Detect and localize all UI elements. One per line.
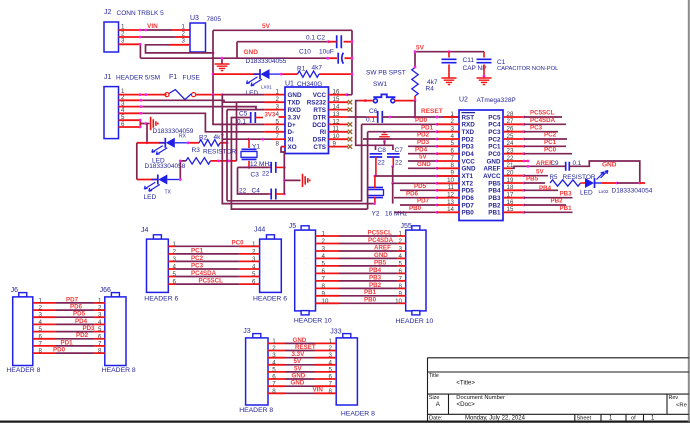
- wire C8 bottom to XT1 node: [375, 157, 377, 176]
- capacitor C6: [378, 111, 383, 123]
- svg-text:1: 1: [322, 231, 326, 238]
- U2 pin23 PC0 row: [503, 153, 524, 155]
- svg-text:PD5: PD5: [73, 311, 86, 318]
- wire switch right to RESET: [394, 100, 414, 102]
- svg-text:1: 1: [329, 338, 333, 345]
- svg-text:PD0: PD0: [415, 117, 428, 124]
- svg-text:PD5: PD5: [462, 188, 475, 195]
- J4.6-J44.6 wire: [168, 283, 176, 285]
- J1.2 wire (jog) to U1 TXD: [119, 99, 143, 101]
- svg-text:8: 8: [98, 348, 102, 355]
- svg-text:3: 3: [276, 104, 280, 111]
- svg-text:D1833304059: D1833304059: [153, 128, 194, 135]
- svg-text:2: 2: [322, 238, 326, 245]
- svg-text:PC3: PC3: [530, 124, 543, 131]
- wire LED to R1: [270, 73, 282, 75]
- U3 pin3 output U-path to 5V rail: [169, 44, 190, 46]
- svg-text:HEADER 8: HEADER 8: [102, 367, 136, 374]
- LED D2 (RX): [159, 142, 166, 144]
- J3.3-J33.3 wire: [268, 357, 285, 359]
- svg-text:4: 4: [173, 264, 177, 271]
- svg-text:Rev: Rev: [669, 395, 679, 401]
- wire C7 bottom to XT2 node: [392, 157, 394, 167]
- wire J2.3 down to GND rail: [119, 43, 141, 45]
- U2 pin6 PD4 row: [408, 153, 437, 155]
- svg-text:PB3: PB3: [488, 195, 501, 202]
- svg-text:AREF: AREF: [374, 244, 391, 251]
- junction dot: [139, 36, 142, 39]
- svg-text:PC1: PC1: [191, 247, 204, 254]
- svg-text:C5: C5: [239, 111, 248, 118]
- svg-text:5V: 5V: [294, 365, 302, 372]
- svg-text:J1: J1: [104, 74, 112, 81]
- svg-text:J2: J2: [104, 9, 112, 16]
- svg-text:7: 7: [399, 275, 403, 282]
- svg-text:PC2: PC2: [488, 136, 501, 143]
- svg-text:Sheet: Sheet: [577, 416, 592, 422]
- connector J6 tab: [19, 293, 27, 297]
- svg-text:C6: C6: [369, 108, 378, 115]
- svg-text:1: 1: [399, 231, 403, 238]
- J6.6-J66.6 wire: [33, 338, 56, 340]
- svg-text:F1: F1: [169, 74, 177, 81]
- J6.4-J66.4 wire: [33, 323, 56, 325]
- svg-text:1: 1: [39, 297, 43, 304]
- U1 right NC pins with X: [329, 101, 349, 103]
- svg-text:PD5: PD5: [414, 183, 427, 190]
- svg-text:XT1: XT1: [462, 173, 474, 180]
- svg-text:1: 1: [98, 297, 102, 304]
- RST overline: [462, 112, 476, 114]
- svg-text:Y2: Y2: [372, 211, 380, 218]
- svg-text:PD7: PD7: [66, 296, 79, 303]
- wire Y2 top: [374, 176, 376, 189]
- svg-text:D1833304054: D1833304054: [612, 188, 653, 195]
- wire C5 left down (V4): [231, 118, 367, 210]
- wire R4 bottom to switch node: [414, 96, 416, 101]
- svg-text:D1833304055: D1833304055: [246, 58, 287, 65]
- svg-text:PB2: PB2: [488, 202, 501, 209]
- svg-text:2: 2: [399, 238, 403, 245]
- U2 pin26 PC3 row: [503, 131, 524, 133]
- J6.5-J66.5 wire: [33, 331, 56, 333]
- svg-text:PB0: PB0: [364, 297, 377, 304]
- svg-text:HEADER 8: HEADER 8: [6, 367, 40, 374]
- U1 XI wire to Y1 top: [272, 138, 285, 140]
- svg-text:3V3: 3V3: [265, 113, 276, 119]
- wire C5 right 3V3 to U1 pin4: [255, 117, 263, 119]
- U2 pin11 PD5 row: [400, 189, 437, 191]
- capacitor C3: [248, 166, 251, 169]
- svg-text:10uF: 10uF: [319, 49, 334, 56]
- svg-text:PC3: PC3: [191, 262, 204, 269]
- svg-text:4: 4: [329, 359, 333, 366]
- svg-text:1: 1: [182, 24, 186, 31]
- svg-text:5: 5: [98, 326, 102, 333]
- svg-text:U2: U2: [459, 96, 468, 103]
- RX LED row wire left: [137, 142, 166, 144]
- svg-text:3: 3: [98, 312, 102, 319]
- U2 pin25 PC2 row: [503, 138, 524, 140]
- resistor R5: [550, 180, 581, 186]
- svg-text:4: 4: [39, 319, 43, 326]
- connector J44 body: [260, 239, 282, 292]
- J5.3-J55.3 wire: [316, 250, 340, 252]
- svg-text:Date:: Date:: [429, 416, 443, 422]
- svg-text:of: of: [631, 416, 636, 422]
- svg-text:3: 3: [322, 246, 326, 253]
- svg-text:7: 7: [98, 340, 102, 347]
- svg-text:SW PB SPST: SW PB SPST: [366, 70, 406, 77]
- svg-text:PB2: PB2: [551, 198, 564, 205]
- svg-text:6: 6: [39, 333, 43, 340]
- svg-text:TXD: TXD: [462, 129, 475, 136]
- wire C9 right to GND drop: [570, 161, 640, 183]
- fuse F1 symbol: [165, 93, 169, 97]
- J3.7-J33.7 wire: [268, 385, 285, 387]
- svg-text:FUSE: FUSE: [183, 74, 201, 81]
- svg-text:7: 7: [272, 381, 276, 388]
- svg-text:PC4: PC4: [488, 122, 501, 129]
- svg-text:9: 9: [322, 290, 326, 297]
- resistor R3: [186, 158, 211, 164]
- svg-text:LED: LED: [246, 90, 259, 97]
- connector J4 tab: [153, 235, 161, 239]
- svg-text:1: 1: [252, 241, 256, 248]
- svg-text:<Title>: <Title>: [456, 380, 475, 387]
- svg-text:1: 1: [272, 338, 276, 345]
- svg-text:RXD: RXD: [288, 107, 302, 114]
- U2 pin13 PD7 row: [400, 204, 437, 206]
- svg-text:C1: C1: [497, 59, 506, 66]
- wire switch left: [359, 100, 373, 102]
- inverted earth ground above C8/C7: [377, 132, 392, 139]
- page border right: [688, 0, 690, 422]
- connector J3 body: [246, 338, 268, 405]
- J4.2-J44.2 wire: [168, 253, 176, 255]
- svg-text:5V: 5V: [536, 168, 544, 175]
- 5V rail right: [415, 51, 484, 53]
- svg-text:PD4: PD4: [415, 146, 428, 153]
- svg-text:XO: XO: [288, 144, 297, 151]
- U2 pin12 PD6 row: [394, 197, 437, 199]
- svg-text:SW1: SW1: [373, 81, 387, 88]
- U2 pin8 GND row: [408, 167, 437, 169]
- wire R3 left to TX LED right: [180, 161, 186, 180]
- svg-text:RI: RI: [320, 129, 327, 136]
- svg-text:3: 3: [182, 38, 186, 45]
- svg-text:4: 4: [252, 264, 256, 271]
- svg-text:Lx02: Lx02: [599, 189, 609, 194]
- J6.1-J66.1 wire: [33, 302, 56, 304]
- ground stub right of crystal circuit: [283, 179, 286, 182]
- connector J4 body: [147, 239, 169, 292]
- LED D3 (TX): [151, 179, 158, 181]
- svg-text:J3: J3: [243, 328, 251, 335]
- svg-text:GND: GND: [244, 49, 259, 56]
- svg-text:PC4SDA: PC4SDA: [530, 117, 556, 124]
- svg-text:1: 1: [276, 89, 280, 96]
- wire J2.2 to U3.2: [119, 36, 141, 38]
- connector J66 body: [105, 297, 126, 366]
- U2 pin1 RESET red stub: [436, 116, 439, 119]
- J5.2-J55.2 wire: [316, 243, 340, 245]
- svg-text:8: 8: [329, 388, 333, 395]
- svg-text:PB5: PB5: [526, 176, 539, 183]
- wire XT2 node down to A2 line: [392, 183, 394, 203]
- svg-text:PD7: PD7: [462, 202, 475, 209]
- J3.4-J33.4 wire: [268, 364, 285, 366]
- svg-text:2: 2: [276, 96, 280, 103]
- J1.5/J1.6 join: [119, 119, 141, 121]
- svg-text:PB1: PB1: [488, 210, 501, 217]
- TX LED row wire: [137, 179, 158, 181]
- svg-text:J5: J5: [289, 223, 297, 230]
- svg-text:1: 1: [451, 111, 455, 118]
- svg-text:3: 3: [329, 352, 333, 359]
- svg-text:PB1: PB1: [364, 289, 377, 296]
- svg-text:HEADER 8: HEADER 8: [239, 407, 273, 414]
- J4.3-J44.3 wire: [168, 260, 176, 262]
- svg-text:PD6: PD6: [406, 190, 419, 197]
- wire TX LED right: [167, 179, 180, 181]
- svg-text:GND: GND: [292, 372, 306, 379]
- wire PD0 drop to A1 line: [227, 124, 362, 201]
- switch left junction dot: [364, 99, 367, 102]
- wire J2.1 to U3.1 (VIN): [119, 29, 141, 31]
- svg-text:<Doc>: <Doc>: [457, 401, 476, 408]
- svg-text:2: 2: [173, 248, 177, 255]
- svg-text:CTS: CTS: [313, 144, 326, 151]
- svg-text:PB5: PB5: [374, 259, 387, 266]
- svg-text:PD6: PD6: [70, 304, 83, 311]
- svg-text:3: 3: [399, 246, 403, 253]
- wire Y2 bottom: [374, 197, 376, 204]
- connector J5 body: [295, 230, 316, 311]
- svg-text:5: 5: [252, 271, 256, 278]
- svg-text:PB1: PB1: [560, 205, 573, 212]
- svg-text:RESET: RESET: [295, 344, 316, 351]
- regulator U3 body: [190, 23, 206, 52]
- svg-text:2: 2: [272, 345, 276, 352]
- capacitor C4: [238, 167, 269, 194]
- resistor R4: [412, 68, 418, 97]
- svg-text:3: 3: [252, 256, 256, 263]
- XT1 row to U2 pin9: [375, 175, 459, 177]
- svg-text:CONN TRBLK 5: CONN TRBLK 5: [117, 10, 165, 17]
- svg-text:R3: R3: [192, 147, 201, 154]
- svg-text:PC3: PC3: [488, 129, 501, 136]
- svg-text:GND: GND: [417, 161, 431, 168]
- J1.1 wire to fuse: [119, 94, 167, 96]
- svg-text:U3: U3: [190, 15, 199, 22]
- svg-text:VCC: VCC: [462, 158, 476, 165]
- connector J2 body: [104, 22, 119, 52]
- wire fuse-row down to U1 D+: [213, 95, 264, 125]
- svg-text:0.1: 0.1: [366, 117, 375, 124]
- svg-text:PB0: PB0: [462, 210, 475, 217]
- svg-text:2: 2: [182, 31, 186, 38]
- LED D1833304055 (power): [254, 73, 261, 75]
- IC U1 body: [285, 87, 329, 154]
- U2 pin7 VCC 5V row: [408, 160, 437, 162]
- wire fuse to U1 GND row: [196, 94, 223, 96]
- svg-text:22: 22: [262, 171, 270, 178]
- crystal Y1: [248, 139, 250, 148]
- wire to chassis symbol: [140, 123, 149, 125]
- svg-text:8: 8: [399, 283, 403, 290]
- ground symbol below GND rail: [221, 58, 223, 64]
- svg-text:5V: 5V: [419, 154, 427, 161]
- svg-text:TX: TX: [165, 190, 172, 196]
- svg-text:2: 2: [39, 305, 43, 312]
- connector J33 body: [336, 338, 357, 405]
- svg-text:GND: GND: [291, 380, 305, 387]
- svg-text:PD3: PD3: [462, 144, 475, 151]
- crystal Y2: [368, 188, 383, 198]
- U2 pin27 PC4SDA row: [503, 123, 524, 125]
- J5.8-J55.8 wire: [316, 287, 340, 289]
- svg-text:2: 2: [252, 248, 256, 255]
- svg-text:GND: GND: [602, 162, 617, 169]
- ground under C11: [442, 78, 457, 85]
- connector J66 tab: [111, 293, 119, 297]
- U1 XO wire down to C3/C4 right rail: [281, 146, 285, 148]
- svg-text:5V: 5V: [294, 358, 302, 365]
- wire switch-left rail down to ground bridge: [356, 101, 376, 146]
- svg-text:RTS: RTS: [313, 107, 326, 114]
- U2 pin16 PB2 row: [503, 204, 524, 206]
- page border bottom: [0, 421, 690, 423]
- U2 pin24 PC1 row: [503, 145, 524, 147]
- svg-text:PC2: PC2: [191, 255, 204, 262]
- svg-text:PC5SCL: PC5SCL: [368, 229, 393, 236]
- connector J55 tab: [412, 226, 420, 230]
- J1.3 wire to U1 RXD: [119, 106, 143, 108]
- svg-text:PC2: PC2: [544, 132, 557, 139]
- svg-text:C11: C11: [463, 57, 475, 64]
- svg-text:PC0: PC0: [232, 240, 245, 247]
- svg-text:HEADER 8: HEADER 8: [341, 411, 375, 418]
- svg-text:5: 5: [399, 260, 403, 267]
- svg-text:RX: RX: [179, 134, 187, 140]
- svg-text:PD2: PD2: [417, 132, 430, 139]
- wire RXD row to V3: [227, 109, 256, 111]
- svg-text:5V: 5V: [262, 23, 271, 30]
- 5V rail drop at x=352 to U1 VCC: [351, 30, 353, 94]
- svg-text:C7: C7: [395, 147, 404, 154]
- IC U2 body: [459, 110, 503, 221]
- svg-text:9: 9: [399, 290, 403, 297]
- svg-text:HEADER 5/SM: HEADER 5/SM: [116, 75, 160, 82]
- svg-text:PD1: PD1: [61, 339, 74, 346]
- capacitor C5: [251, 112, 256, 123]
- svg-text:PB3: PB3: [560, 190, 573, 197]
- svg-text:CAP NP: CAP NP: [463, 65, 487, 72]
- J4.1-J44.1 wire: [168, 245, 176, 247]
- svg-text:AREF: AREF: [483, 166, 500, 173]
- svg-text:J33: J33: [330, 328, 341, 335]
- svg-text:6: 6: [98, 333, 102, 340]
- svg-text:RESISTOR: RESISTOR: [563, 174, 596, 181]
- svg-text:5: 5: [39, 326, 43, 333]
- wire V3 RXD down to R2 right: [226, 110, 228, 201]
- svg-text:7: 7: [329, 381, 333, 388]
- 5V rail top horizontal: [213, 29, 352, 31]
- capacitor C1: [483, 52, 485, 58]
- svg-text:<Re: <Re: [676, 402, 687, 408]
- U2 pin28 PC5SCL row: [503, 116, 524, 118]
- J55 bottom tab: [412, 311, 420, 315]
- svg-text:PC5: PC5: [488, 114, 501, 121]
- 5V rail vertical at x=213: [212, 30, 214, 94]
- rail from chassis node down to RX row: [146, 124, 148, 143]
- svg-text:PD3: PD3: [417, 139, 430, 146]
- svg-text:22: 22: [378, 160, 386, 167]
- J6.7-J66.7 wire: [33, 345, 56, 347]
- connector J5 tab: [301, 226, 309, 230]
- svg-text:PB4: PB4: [488, 188, 501, 195]
- svg-text:6: 6: [272, 374, 276, 381]
- switch SW1 pushbutton: [373, 99, 377, 103]
- svg-text:6: 6: [252, 279, 256, 286]
- LED D1833304054: [595, 182, 602, 184]
- svg-text:7: 7: [39, 340, 43, 347]
- resistor R2: [199, 140, 220, 146]
- svg-text:GND: GND: [374, 252, 388, 259]
- J3.1-J33.1 wire: [268, 342, 285, 344]
- svg-text:PC1: PC1: [488, 144, 501, 151]
- J5.10-J55.10 wire: [316, 302, 340, 304]
- resistor R1: [298, 71, 320, 77]
- svg-text:6: 6: [399, 268, 403, 275]
- svg-text:PC5SCL: PC5SCL: [530, 110, 555, 117]
- svg-text:10: 10: [395, 298, 402, 305]
- svg-text:3: 3: [39, 312, 43, 319]
- svg-text:2: 2: [329, 345, 333, 352]
- ground under C1: [477, 78, 492, 85]
- svg-text:C9: C9: [551, 160, 559, 167]
- J5.5-J55.5 wire: [316, 265, 340, 267]
- junction dots VIN row: [139, 29, 142, 32]
- svg-text:C3: C3: [251, 172, 260, 179]
- svg-text:PD2: PD2: [76, 332, 89, 339]
- U2 pin9 stub: [436, 175, 439, 178]
- wire LED right to GND: [601, 182, 617, 184]
- U2 pin19 PB5 row with R5 and LED: [503, 182, 524, 184]
- GND rail horizontal y=57.2: [140, 57, 327, 59]
- svg-text:PC0: PC0: [488, 151, 501, 158]
- wire R1 to 5V rail: [319, 73, 352, 75]
- svg-text:0.1: 0.1: [237, 119, 246, 126]
- svg-text:5: 5: [272, 366, 276, 373]
- svg-text:TXD: TXD: [288, 100, 301, 107]
- svg-text:R4: R4: [426, 86, 435, 93]
- svg-text:LED: LED: [144, 194, 157, 201]
- svg-text:PD4: PD4: [75, 318, 88, 325]
- wire XI row extension left: [222, 138, 249, 140]
- wire R2 to RXD drop: [220, 142, 227, 144]
- junction dots C2: [351, 40, 354, 43]
- J5.1-J55.1 wire: [316, 235, 340, 237]
- svg-text:RXD: RXD: [462, 122, 476, 129]
- svg-text:PC5SCL: PC5SCL: [199, 278, 224, 285]
- capacitor C11: [448, 52, 450, 58]
- J3.8-J33.8 wire: [268, 392, 285, 394]
- svg-text:J66: J66: [100, 287, 111, 294]
- svg-text:XI: XI: [288, 137, 294, 144]
- svg-text:7: 7: [322, 275, 326, 282]
